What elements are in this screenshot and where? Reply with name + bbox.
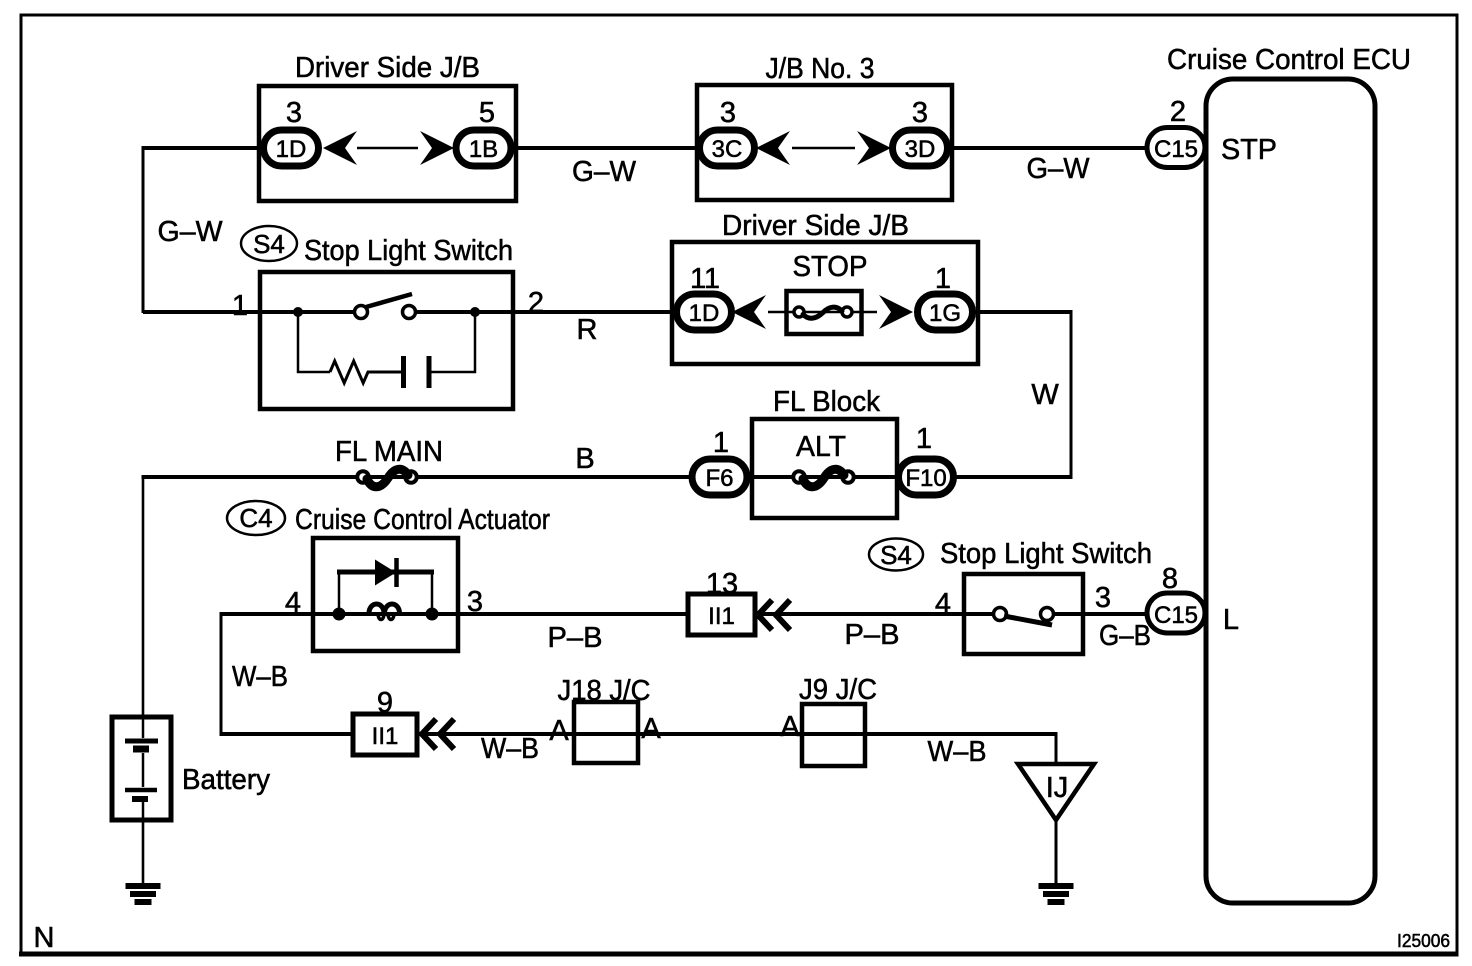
svg-text:A: A bbox=[780, 711, 800, 743]
svg-text:F6: F6 bbox=[705, 465, 733, 492]
svg-text:Driver Side J/B: Driver Side J/B bbox=[722, 210, 909, 242]
svg-text:1G: 1G bbox=[929, 300, 961, 327]
svg-text:F10: F10 bbox=[905, 465, 946, 492]
svg-text:11: 11 bbox=[690, 263, 720, 295]
svg-text:2: 2 bbox=[1170, 96, 1186, 128]
svg-text:13: 13 bbox=[706, 568, 738, 600]
svg-text:4: 4 bbox=[285, 587, 301, 619]
svg-text:STOP: STOP bbox=[793, 251, 868, 283]
svg-text:A: A bbox=[549, 715, 569, 747]
svg-text:IJ: IJ bbox=[1046, 772, 1069, 804]
svg-text:STP: STP bbox=[1221, 134, 1277, 166]
svg-text:I25006: I25006 bbox=[1397, 931, 1450, 951]
svg-text:G–W: G–W bbox=[572, 156, 637, 188]
svg-text:J9 J/C: J9 J/C bbox=[799, 674, 877, 706]
svg-text:3: 3 bbox=[720, 97, 736, 129]
svg-text:FL MAIN: FL MAIN bbox=[335, 436, 443, 468]
svg-text:3: 3 bbox=[286, 97, 302, 129]
svg-text:2: 2 bbox=[528, 287, 544, 319]
svg-text:G–B: G–B bbox=[1099, 620, 1151, 652]
svg-text:C15: C15 bbox=[1154, 602, 1198, 629]
svg-text:1: 1 bbox=[713, 427, 729, 459]
svg-text:Cruise Control ECU: Cruise Control ECU bbox=[1167, 44, 1411, 76]
svg-text:P–B: P–B bbox=[548, 622, 603, 654]
svg-text:II1: II1 bbox=[372, 723, 399, 750]
svg-text:S4: S4 bbox=[880, 540, 912, 570]
svg-text:FL Block: FL Block bbox=[773, 386, 880, 418]
svg-text:C4: C4 bbox=[239, 503, 272, 533]
svg-text:1B: 1B bbox=[469, 136, 498, 163]
svg-text:W: W bbox=[1031, 379, 1059, 411]
svg-text:1: 1 bbox=[916, 423, 932, 455]
svg-text:Cruise Control Actuator: Cruise Control Actuator bbox=[295, 504, 550, 536]
svg-text:1D: 1D bbox=[689, 300, 720, 327]
svg-text:4: 4 bbox=[935, 588, 951, 620]
svg-text:1: 1 bbox=[935, 263, 951, 295]
svg-text:Stop Light Switch: Stop Light Switch bbox=[304, 235, 513, 267]
svg-text:3: 3 bbox=[467, 586, 483, 618]
svg-text:L: L bbox=[1223, 604, 1239, 636]
svg-text:B: B bbox=[575, 443, 594, 475]
svg-text:3D: 3D bbox=[905, 136, 936, 163]
svg-text:3: 3 bbox=[912, 97, 928, 129]
svg-text:1: 1 bbox=[232, 290, 248, 322]
svg-text:W–B: W–B bbox=[481, 733, 539, 765]
svg-text:II1: II1 bbox=[708, 603, 735, 630]
svg-text:W–B: W–B bbox=[232, 661, 288, 693]
svg-text:W–B: W–B bbox=[928, 736, 987, 768]
svg-text:S4: S4 bbox=[253, 229, 285, 259]
svg-text:1D: 1D bbox=[276, 136, 307, 163]
svg-text:C15: C15 bbox=[1154, 136, 1198, 163]
svg-text:Stop Light Switch: Stop Light Switch bbox=[940, 538, 1152, 570]
svg-text:5: 5 bbox=[479, 97, 495, 129]
svg-text:Driver Side J/B: Driver Side J/B bbox=[295, 52, 480, 84]
svg-text:A: A bbox=[641, 713, 661, 745]
svg-text:ALT: ALT bbox=[796, 431, 846, 463]
svg-text:8: 8 bbox=[1162, 563, 1178, 595]
svg-text:J/B No. 3: J/B No. 3 bbox=[766, 53, 875, 85]
svg-text:3C: 3C bbox=[712, 136, 743, 163]
svg-text:3: 3 bbox=[1095, 582, 1111, 614]
svg-text:N: N bbox=[34, 922, 55, 954]
svg-text:G–W: G–W bbox=[1027, 153, 1091, 185]
svg-text:9: 9 bbox=[377, 687, 393, 719]
svg-text:Battery: Battery bbox=[182, 764, 270, 796]
svg-text:P–B: P–B bbox=[845, 619, 900, 651]
svg-text:R: R bbox=[577, 314, 598, 346]
svg-text:G–W: G–W bbox=[158, 216, 224, 248]
svg-text:J18 J/C: J18 J/C bbox=[558, 675, 651, 707]
